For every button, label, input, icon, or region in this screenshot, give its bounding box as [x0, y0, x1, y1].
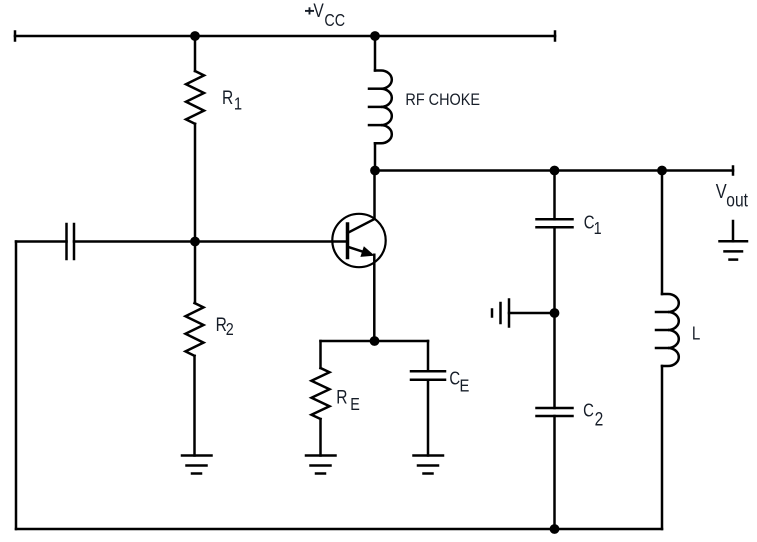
wire: tap node to C2	[553, 313, 556, 408]
svg-text:CC: CC	[324, 12, 345, 31]
svg-text:C: C	[449, 368, 460, 389]
svg-text:C: C	[583, 400, 594, 421]
capacitor C2 bottom plate	[537, 415, 573, 418]
ground under RE	[306, 454, 336, 457]
node: C2 / bottom rail junction	[550, 524, 560, 534]
wire: base wire (coupling cap to transistor)	[74, 240, 348, 243]
capacitor C (feedback coupling) right plate	[73, 224, 76, 259]
wire: left of coupling cap	[16, 240, 67, 243]
wire: CE to ground	[427, 380, 430, 456]
wire: bottom feedback	[16, 528, 662, 531]
svg-text:2: 2	[595, 408, 604, 430]
capacitor C1 bottom plate	[537, 226, 573, 229]
node: emitter junction	[370, 336, 380, 346]
transistor Q1 emitter internal lead	[348, 247, 368, 253]
node: collector rail / L junction	[657, 166, 667, 176]
wire: R1 top (Vcc rail to R1)	[194, 36, 197, 71]
node: collector rail / C1 junction	[550, 166, 560, 176]
svg-text:2: 2	[226, 321, 234, 340]
capacitor C1 top plate	[537, 218, 573, 221]
svg-text:1: 1	[234, 94, 242, 114]
wire: collector rail to L	[661, 171, 664, 295]
resistor R2	[186, 303, 204, 356]
svg-text:E: E	[350, 396, 360, 415]
terminal tick: Vout wire end	[732, 167, 735, 175]
wire: C1 to tap node	[553, 227, 556, 313]
svg-text:R: R	[222, 86, 233, 108]
inductor RF CHOKE: top wire	[374, 36, 377, 71]
svg-text:V: V	[313, 0, 324, 21]
capacitor C2 top plate	[537, 407, 573, 410]
svg-text:out: out	[726, 189, 748, 211]
wire: emitter rail	[321, 340, 429, 343]
wire: RE to ground	[319, 419, 322, 456]
node: C1/C2 tap junction	[550, 308, 560, 318]
inductor RF CHOKE: loops	[375, 70, 392, 143]
wire: emitter rail to CE	[427, 341, 430, 371]
ground (sideways) at C1/C2 tap	[508, 300, 511, 327]
wire: tap node to side ground	[509, 312, 555, 315]
wire: L bottom to bottom rail	[661, 366, 664, 529]
wire: choke bottom to collector node	[374, 143, 377, 170]
wire: collector rail to C1	[553, 171, 556, 220]
label +Vcc	[305, 7, 314, 14]
node: base junction	[190, 237, 200, 247]
svg-text:R: R	[336, 386, 347, 408]
wire: C2 to bottom rail	[553, 416, 556, 529]
transistor Q1 circle	[332, 214, 385, 267]
transistor Q1 base bar	[346, 224, 350, 258]
capacitor C (feedback coupling) left plate	[65, 224, 68, 259]
wire: R2 to ground	[193, 356, 196, 456]
transistor Q1 emitter arrowhead	[361, 247, 373, 256]
wire: left vertical feedback	[15, 242, 18, 530]
svg-text:RF CHOKE: RF CHOKE	[405, 91, 480, 109]
svg-text:L: L	[692, 323, 700, 344]
resistor R1	[186, 71, 204, 124]
inductor L loops	[662, 294, 679, 366]
inductor RF CHOKE: return nubs	[369, 87, 381, 90]
capacitor CE bottom plate	[411, 379, 445, 382]
wire: base node to R2	[194, 242, 197, 304]
wire: top +Vcc rail	[15, 35, 555, 38]
wire: R1 bottom to base node	[194, 124, 197, 242]
wire: collector lead into transistor	[373, 171, 376, 219]
wire: emitter rail to RE	[319, 341, 322, 368]
terminal tick: left end of Vcc rail	[14, 32, 17, 41]
inductor L return nubs	[656, 311, 668, 314]
node: Vcc/choke junction	[370, 31, 380, 41]
terminal tick: right end of Vcc rail	[554, 32, 557, 41]
transistor Q1 collector internal lead	[348, 219, 375, 233]
ground under CE	[414, 454, 444, 457]
wire: collector node rail	[375, 169, 733, 172]
node: collector/choke junction	[370, 166, 380, 176]
resistor RE	[312, 368, 330, 419]
ground under Vout	[732, 221, 735, 241]
ground under R2	[182, 454, 212, 457]
svg-text:1: 1	[594, 220, 602, 239]
capacitor CE top plate	[411, 370, 445, 373]
node: Vcc/R1 junction	[190, 31, 200, 41]
wire: emitter lead out of transistor	[373, 255, 376, 341]
svg-text:E: E	[460, 376, 470, 396]
